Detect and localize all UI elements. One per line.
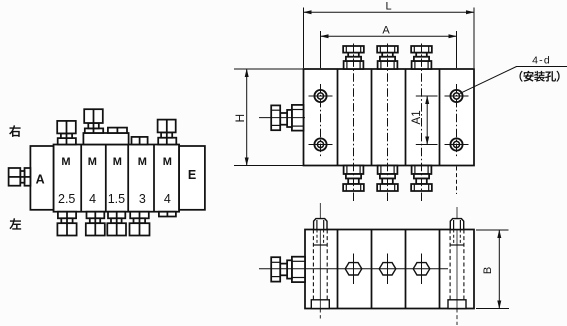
view1 label M plate 4	[138, 156, 147, 168]
dimension A	[321, 25, 457, 69]
view1 plug below plate M5	[159, 212, 176, 217]
view3 hex plug 3	[413, 254, 430, 285]
view2 inlet fitting	[259, 105, 305, 131]
view3 hex plug 1	[345, 254, 362, 285]
view2 bottom outlet fitting 2	[377, 166, 398, 192]
view1 plug above plate M4	[132, 137, 148, 145]
view1 end plate A	[30, 146, 53, 210]
label you (right)	[9, 125, 21, 137]
view1 outlet fitting below plate M4	[130, 212, 150, 236]
view1 value 1.5 plate 3	[108, 192, 125, 206]
view2 section centerlines	[354, 44, 422, 202]
view1 label M plate 2	[88, 156, 97, 168]
svg-text:M: M	[61, 156, 70, 168]
svg-text:L: L	[385, 1, 391, 13]
view2 top outlet fitting 3	[411, 46, 432, 69]
svg-text:B: B	[482, 267, 494, 274]
view2 mounting hole 3	[445, 90, 469, 102]
view2 body	[304, 69, 475, 166]
view2 mounting hole 4	[445, 138, 469, 150]
view1 outlet fitting below plate M2	[86, 212, 105, 236]
callout 4-d mounting holes	[460, 55, 567, 94]
svg-text:A: A	[382, 25, 390, 37]
view2 mounting hole 1	[309, 90, 333, 102]
view1 value 4 plate 5	[164, 192, 171, 206]
view1 outlet fitting above plate M5	[158, 120, 177, 145]
svg-text:4: 4	[89, 192, 96, 206]
view1 value 4 plate 2	[89, 192, 96, 206]
view3 body	[305, 230, 474, 309]
view2 bottom outlet fitting 3	[411, 166, 432, 192]
dimension L	[304, 1, 475, 69]
view2 top outlet fitting 2	[377, 46, 398, 69]
view3 horizontal centerline	[259, 268, 448, 270]
svg-text:M: M	[163, 156, 172, 168]
view2 left plate hole centerline	[320, 84, 322, 157]
svg-text:M: M	[113, 156, 122, 168]
view1 manifold base above plates M2-M3	[83, 133, 128, 145]
svg-text:E: E	[188, 168, 196, 182]
svg-text:H: H	[233, 114, 247, 123]
view1 M-plates block	[54, 145, 180, 212]
svg-text:3: 3	[139, 192, 146, 206]
view1 value 2.5 plate 1	[58, 192, 75, 206]
svg-text:4: 4	[164, 192, 171, 206]
view1 outlet fitting below plate M1	[57, 212, 76, 236]
svg-text:A1: A1	[411, 110, 423, 124]
dimension B	[476, 230, 509, 309]
svg-text:M: M	[88, 156, 97, 168]
dimension H	[233, 69, 304, 166]
svg-text:1.5: 1.5	[108, 192, 125, 206]
label zuo (left)	[9, 218, 21, 229]
view1 value 3 plate 4	[139, 192, 146, 206]
view3 hex plug 2	[379, 254, 396, 285]
view1 label M plate 1	[61, 156, 70, 168]
view2 mounting hole 2	[309, 138, 333, 150]
view1 outlet fitting below plate M3	[107, 212, 126, 236]
dimension A1	[411, 96, 438, 145]
view3 right tie bolt	[448, 207, 466, 325]
view1 outlet fitting above plate M2	[84, 109, 103, 133]
svg-text:4-d: 4-d	[532, 55, 551, 67]
view1 outlet fitting above plate M1	[57, 121, 76, 145]
svg-text:M: M	[138, 156, 147, 168]
svg-text:A: A	[36, 173, 45, 187]
view1 end plate E	[179, 146, 205, 210]
view2 top outlet fitting 1	[343, 46, 364, 69]
view1 label M plate 5	[163, 156, 172, 168]
view1 label M plate 3	[113, 156, 122, 168]
view1 label E	[188, 168, 196, 182]
view2 bottom outlet fitting 1	[343, 166, 364, 192]
view1 label A	[36, 173, 45, 187]
view2 right plate hole centerline	[456, 84, 458, 194]
view1 inlet fitting	[9, 168, 31, 186]
svg-text:2.5: 2.5	[58, 192, 75, 206]
view3 left tie bolt	[311, 203, 329, 319]
view3 inlet fitting	[271, 257, 305, 282]
view1 plug above plate M3	[108, 128, 127, 133]
